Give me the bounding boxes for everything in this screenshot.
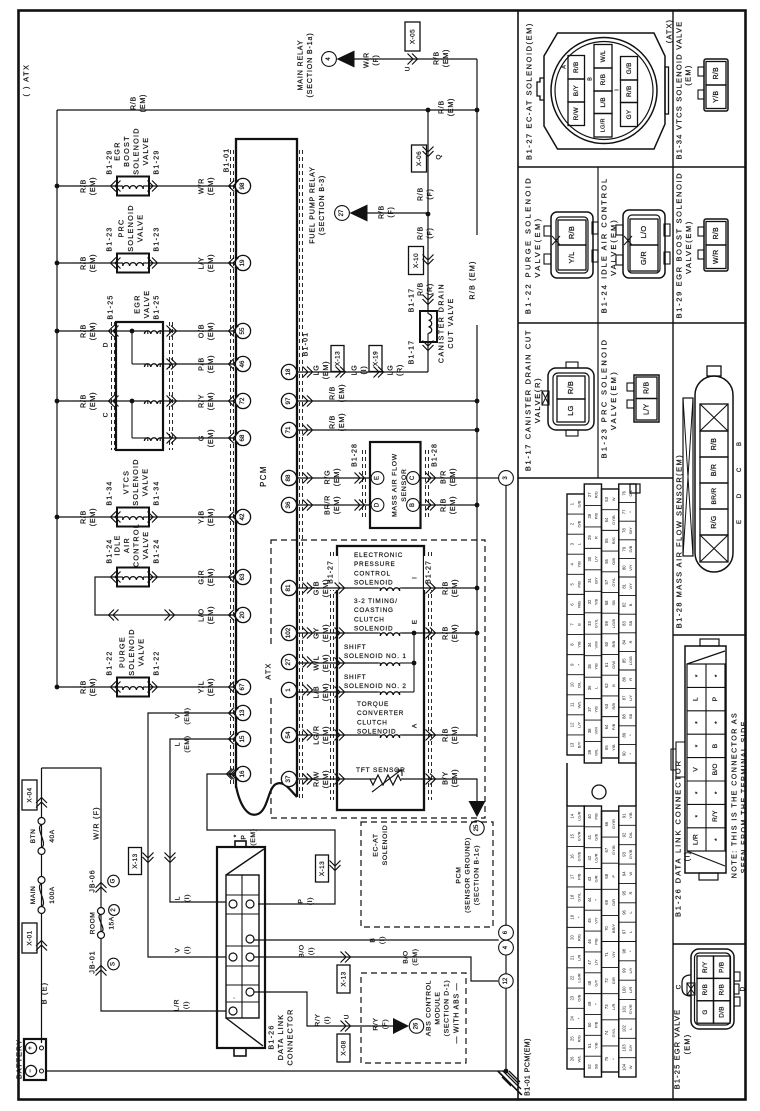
svg-text:35: 35	[587, 663, 592, 668]
EGR valve face right tabs	[734, 972, 740, 981]
svg-text:JB-01: JB-01	[90, 950, 97, 973]
svg-text:B1-25 EGR VALVE: B1-25 EGR VALVE	[673, 1009, 682, 1090]
svg-text:(EM): (EM)	[450, 624, 459, 642]
svg-text:(SECTION B-3): (SECTION B-3)	[319, 175, 326, 235]
svg-text:L/O: L/O	[639, 226, 648, 239]
svg-text:60: 60	[604, 641, 609, 646]
svg-text:GY/R: GY/R	[628, 1004, 633, 1014]
svg-text:PCM: PCM	[455, 866, 462, 883]
svg-text:(EM): (EM)	[321, 579, 330, 597]
svg-text:63: 63	[604, 703, 609, 708]
svg-text:L/R: L/R	[173, 999, 180, 1011]
svg-text:SB: SB	[611, 600, 616, 606]
svg-text:A: A	[562, 65, 568, 69]
svg-text:B1-28: B1-28	[432, 443, 439, 467]
svg-text:15A: 15A	[108, 916, 115, 929]
svg-text:R/B: R/B	[644, 381, 651, 394]
svg-text:R: R	[628, 678, 633, 681]
svg-text:R/G: R/G	[323, 470, 332, 485]
wire EGR valve row to PCM G|(EM)	[163, 437, 236, 439]
svg-text:47: 47	[587, 959, 592, 964]
svg-text:B1-22: B1-22	[107, 650, 114, 675]
svg-text:SOLENOID: SOLENOID	[126, 204, 135, 252]
svg-text:B1-27: B1-27	[426, 560, 433, 584]
svg-text:Y/L: Y/L	[197, 681, 206, 694]
EC-AT connector housing octagon	[544, 33, 665, 149]
ground symbol	[498, 1071, 522, 1095]
svg-text:(EM): (EM)	[450, 579, 459, 597]
EC-AT solenoid unit box	[337, 546, 424, 810]
fuse BTN 40A	[38, 818, 45, 825]
svg-text:A: A	[411, 723, 418, 728]
EGR valve connector dashes	[111, 322, 113, 450]
purge connector tabs	[544, 226, 551, 236]
svg-text:11: 11	[570, 702, 575, 707]
svg-text:1: 1	[285, 688, 292, 692]
svg-text:L/Y: L/Y	[628, 967, 633, 973]
wire pin36 to MAF D BR/R(EM)	[297, 504, 371, 506]
circled 2 at ROOM fuse	[109, 905, 120, 916]
EGR valve internal link C rows	[131, 401, 133, 438]
svg-text:L/Y: L/Y	[576, 722, 581, 728]
svg-text:*: *	[695, 721, 702, 724]
svg-text:Y/B: Y/B	[594, 1042, 599, 1049]
svg-text:71: 71	[604, 952, 609, 957]
svg-text:(EM): (EM)	[337, 384, 346, 402]
svg-text:V/Y: V/Y	[594, 917, 599, 924]
svg-text:NOTE: THIS IS THE CONNECTOR AS: NOTE: THIS IS THE CONNECTOR AS	[732, 712, 739, 878]
svg-text:R/Y: R/Y	[712, 810, 719, 822]
svg-text:D: D	[102, 342, 109, 347]
svg-text:X-04: X-04	[26, 787, 33, 802]
svg-text:*: *	[234, 834, 241, 837]
svg-text:X-10: X-10	[413, 253, 420, 268]
divider S3 columns x598	[597, 323, 599, 478]
svg-text:101: 101	[621, 1005, 626, 1013]
wire R/B bus to B1-34	[57, 516, 117, 518]
svg-text:46: 46	[587, 939, 592, 944]
svg-text:25: 25	[570, 1036, 575, 1041]
svg-text:R/B: R/B	[441, 728, 450, 742]
wire EGR valve row to PCM R/Y|(EM)	[163, 400, 236, 402]
wire MAF C to junction 3 B/R(EM)	[421, 477, 499, 479]
svg-text:(SECTION B-1a): (SECTION B-1a)	[307, 32, 314, 97]
svg-text:IDLE: IDLE	[113, 534, 122, 555]
svg-text:R/B: R/B	[328, 415, 337, 429]
EC-AT connector circle inner	[555, 42, 653, 140]
svg-text:R/B: R/B	[711, 438, 718, 451]
EGR valve coil row y331	[144, 331, 163, 334]
svg-text:(EM): (EM)	[321, 726, 330, 744]
svg-text:P/B: P/B	[594, 813, 599, 820]
svg-text:GY/R: GY/R	[576, 831, 581, 841]
svg-text:B1-34: B1-34	[107, 480, 114, 505]
svg-text:91: 91	[621, 813, 626, 818]
EC-AT pin LG/R col2	[594, 114, 612, 138]
svg-text:49: 49	[587, 1001, 592, 1006]
svg-text:W/R: W/R	[713, 249, 720, 264]
svg-text:94: 94	[621, 871, 626, 876]
svg-text:18: 18	[285, 368, 292, 375]
svg-text:97: 97	[285, 397, 292, 404]
vertical reference wire 3-6-4-12-ground	[505, 486, 507, 926]
svg-text:58: 58	[604, 600, 609, 605]
svg-text:W/L: W/L	[576, 700, 581, 708]
svg-text:SB: SB	[628, 714, 633, 720]
svg-text:O/L: O/L	[628, 831, 633, 838]
svg-text:L/R: L/R	[692, 834, 699, 845]
connector X-05	[405, 22, 420, 51]
svg-text:R/B: R/B	[566, 381, 575, 394]
wire canister valve down	[427, 342, 429, 372]
svg-text:P: P	[240, 834, 247, 839]
svg-text:61: 61	[604, 662, 609, 667]
connector X-13 on P wire	[316, 855, 329, 882]
svg-text:LG/R: LG/R	[576, 973, 581, 982]
svg-text:26: 26	[414, 1022, 420, 1029]
svg-text:77: 77	[621, 509, 626, 514]
svg-text:88: 88	[285, 474, 292, 481]
svg-text:(F): (F)	[373, 54, 380, 65]
svg-text:(F): (F)	[382, 1019, 389, 1029]
svg-text:C: C	[410, 475, 416, 480]
EC-AT pin W/L col2	[594, 45, 612, 69]
connector arrow circle 27 (fuel pump relay)	[335, 206, 350, 221]
B1-22 solenoid valve box	[117, 678, 149, 697]
svg-text:VTCS: VTCS	[122, 470, 131, 494]
PRC connector	[634, 375, 659, 422]
svg-text:EGR: EGR	[133, 294, 142, 313]
svg-text:(EM): (EM)	[450, 769, 459, 787]
svg-text:PCM: PCM	[259, 465, 268, 487]
svg-text:(EM): (EM)	[321, 683, 330, 701]
junction dot fuel pump branch	[426, 212, 431, 217]
svg-text:GY/R: GY/R	[611, 819, 616, 829]
shift1 link to node E	[402, 662, 414, 664]
svg-text:L/Y: L/Y	[594, 959, 599, 965]
svg-text:B: B	[611, 684, 616, 687]
svg-text:B/O: B/O	[712, 763, 719, 775]
svg-text:W: W	[611, 497, 616, 501]
svg-text:R/B: R/B	[439, 100, 446, 114]
purge solenoid connector	[551, 212, 593, 278]
svg-text:(SECTION D-1): (SECTION D-1)	[443, 980, 450, 1037]
svg-text:100A: 100A	[49, 886, 56, 904]
VTCS connector tabs	[698, 67, 704, 76]
svg-text:SEEN FROM THE TERMINAL SIDE.: SEEN FROM THE TERMINAL SIDE.	[741, 717, 748, 874]
svg-text:G/R: G/R	[639, 251, 648, 265]
svg-text:(EM): (EM)	[321, 770, 330, 788]
PCM right pin circles	[281, 364, 296, 379]
wire B(I) DLC to junction 4	[254, 939, 499, 941]
svg-text:82: 82	[621, 602, 626, 607]
svg-text:B1-28: B1-28	[352, 443, 359, 467]
svg-text:VALVE: VALVE	[135, 214, 144, 243]
svg-text:R/B: R/B	[418, 226, 425, 240]
EGR valve coil row y364	[144, 364, 163, 367]
svg-text:B/R: B/R	[711, 464, 718, 477]
svg-text:71: 71	[285, 426, 292, 433]
svg-text:(EM): (EM)	[337, 413, 346, 431]
MAF pin B/R	[700, 457, 728, 483]
svg-text:X-13: X-13	[132, 853, 139, 868]
ABS dashed box	[361, 973, 466, 1063]
svg-text:BATTERY: BATTERY	[15, 1039, 24, 1079]
svg-text:(F): (F)	[427, 188, 434, 199]
svg-text:14: 14	[570, 813, 575, 818]
svg-text:L: L	[692, 697, 699, 701]
EC-AT sensor ground dashed box	[361, 822, 493, 927]
svg-text:G/B: G/B	[628, 545, 633, 552]
EC-AT pin G/B col3	[621, 57, 638, 81]
svg-text:E: E	[737, 520, 743, 524]
MAF pin B	[407, 499, 420, 512]
svg-text:27: 27	[587, 492, 592, 497]
svg-text:44: 44	[587, 897, 592, 902]
svg-text:P/B: P/B	[594, 1021, 599, 1028]
svg-text:92: 92	[621, 832, 626, 837]
svg-text:Y/B: Y/B	[197, 510, 206, 524]
wire pin71 R/B(EM) to bus	[297, 429, 477, 431]
PCM right pin chevrons	[303, 367, 313, 378]
junction circle 4	[499, 940, 514, 955]
svg-text:R: R	[594, 536, 599, 539]
svg-text:Y/B: Y/B	[611, 744, 616, 751]
svg-text:75: 75	[604, 1056, 609, 1061]
svg-text:P/B: P/B	[197, 357, 206, 371]
svg-text:56: 56	[604, 558, 609, 563]
B1-23 solenoid valve box	[117, 254, 149, 273]
svg-text:R/B: R/B	[79, 256, 88, 270]
svg-text:VALVE: VALVE	[140, 468, 149, 497]
svg-text:O/B: O/B	[576, 994, 581, 1001]
svg-text:U: U	[404, 66, 411, 71]
svg-text:38: 38	[587, 728, 592, 733]
inline label R/B(EM) on bus x477	[470, 235, 484, 325]
svg-text:42: 42	[587, 855, 592, 860]
svg-text:GY/L: GY/L	[594, 618, 599, 628]
battery box	[24, 1039, 46, 1080]
battery - terminal	[25, 1065, 36, 1076]
svg-text:87: 87	[621, 695, 626, 700]
svg-text:95: 95	[621, 890, 626, 895]
EC-AT connector right tab	[665, 67, 669, 114]
divider S2 columns x598	[597, 167, 599, 323]
svg-text:(SENSOR GROUND): (SENSOR GROUND)	[464, 837, 471, 913]
svg-text:L/O: L/O	[197, 608, 206, 622]
svg-text:*: *	[695, 791, 702, 794]
svg-text:45: 45	[587, 918, 592, 923]
svg-text:(I): (I)	[308, 947, 315, 955]
PCM connector gap rails	[566, 763, 568, 806]
svg-text:B/Y: B/Y	[441, 771, 450, 785]
DLC inner grid	[226, 875, 259, 1018]
connector X-06	[412, 145, 427, 172]
svg-text:90: 90	[621, 751, 626, 756]
svg-text:−: −	[28, 1069, 34, 1073]
DLC top tab	[235, 841, 246, 847]
svg-text:R/B: R/B	[131, 96, 138, 110]
wire LG to PCM pin 18	[288, 371, 428, 373]
svg-text:L/Y: L/Y	[644, 404, 651, 415]
svg-text:G/Y: G/Y	[594, 979, 599, 986]
svg-text:P/B: P/B	[719, 962, 726, 973]
EC-AT pin B/Y col1	[568, 79, 585, 102]
EC-AT pin R/W col1	[568, 102, 585, 126]
wire P(EM) pin16 loop	[207, 774, 335, 904]
svg-text:85: 85	[621, 658, 626, 663]
svg-text:(EM): (EM)	[206, 355, 215, 373]
svg-text:54: 54	[285, 731, 292, 738]
svg-text:CONTROL: CONTROL	[354, 570, 391, 577]
svg-text:67: 67	[239, 683, 246, 690]
svg-text:(EM): (EM)	[450, 726, 459, 744]
TFT exit wire B/Y(EM)	[401, 779, 477, 801]
MAF pin BR/R	[700, 483, 728, 509]
EPC exit wire R/B(EM)	[402, 587, 477, 589]
svg-text:R/B: R/B	[418, 187, 425, 201]
svg-text:R/B: R/B	[434, 51, 441, 65]
svg-text:(EM): (EM)	[448, 98, 455, 116]
svg-text:SHIFT: SHIFT	[344, 644, 366, 651]
svg-text:L/B: L/B	[600, 97, 607, 108]
svg-text:SOLENOID: SOLENOID	[354, 580, 393, 587]
svg-text:D/B: D/B	[719, 1006, 726, 1018]
wire W/R(F) from main relay to X-05	[355, 58, 478, 60]
svg-text:P/B: P/B	[594, 513, 599, 520]
MAF pin X top	[700, 404, 728, 431]
svg-text:12: 12	[570, 722, 575, 727]
svg-text:R/G: R/G	[594, 491, 599, 498]
PCM connector table lower half (pins 14-26/40-52/66-75/91-104)	[567, 806, 584, 1069]
svg-text:GY: GY	[312, 627, 321, 639]
svg-text:53: 53	[604, 496, 609, 501]
svg-text:50: 50	[587, 1022, 592, 1027]
svg-text:.: .	[230, 997, 237, 999]
EC-AT pin R/B col3	[621, 80, 638, 103]
svg-text:62: 62	[604, 683, 609, 688]
svg-text:V/M: V/M	[594, 641, 599, 648]
svg-text:G/R: G/R	[594, 875, 599, 882]
EC-AT connector circle outer	[551, 38, 657, 144]
svg-text:(EM): (EM)	[321, 361, 330, 379]
svg-text:68: 68	[239, 434, 246, 441]
svg-text:R/G: R/G	[611, 537, 616, 544]
svg-text:R/B: R/B	[379, 205, 386, 219]
svg-text:LG/R: LG/R	[312, 725, 321, 745]
svg-text:B/Y: B/Y	[594, 577, 599, 584]
svg-text:23: 23	[570, 995, 575, 1000]
svg-text:(EM): (EM)	[184, 707, 191, 724]
EGR valve coil row y401	[144, 401, 163, 404]
svg-text:40A: 40A	[49, 829, 56, 842]
svg-text:G/R: G/R	[611, 899, 616, 906]
svg-text:19: 19	[570, 914, 575, 919]
connector X-01	[22, 923, 37, 953]
svg-text:VALVE: VALVE	[136, 638, 145, 667]
svg-text:(EM): (EM)	[140, 94, 147, 112]
junction dots on left bus	[55, 184, 60, 189]
svg-text:SHIFT: SHIFT	[344, 674, 366, 681]
svg-text:B/Y: B/Y	[628, 527, 633, 534]
svg-text:U: U	[343, 1014, 350, 1019]
svg-text:(EM): (EM)	[184, 735, 191, 752]
DLC bottom tab	[234, 1048, 246, 1056]
svg-text:BR/R: BR/R	[711, 488, 718, 505]
connector X-13 for V/L wires	[129, 848, 142, 875]
svg-text:B1-17: B1-17	[409, 288, 416, 313]
wire L/Y|(EM) to PCM	[149, 262, 236, 264]
battery terminal posts	[40, 1046, 44, 1050]
svg-text:86: 86	[621, 676, 626, 681]
svg-text:(ATX): (ATX)	[665, 19, 674, 43]
svg-text:30: 30	[587, 556, 592, 561]
svg-text:G/B: G/B	[576, 500, 581, 507]
svg-text:98: 98	[239, 182, 246, 189]
junction circle 26	[409, 1019, 423, 1033]
svg-text:L/R: L/R	[628, 987, 633, 993]
svg-text:(EM): (EM)	[448, 496, 457, 514]
svg-text:(EM): (EM)	[206, 678, 215, 696]
svg-text:SOLENOID: SOLENOID	[131, 458, 140, 506]
svg-text:52: 52	[587, 1064, 592, 1069]
svg-text:GY/B: GY/B	[576, 851, 581, 861]
svg-text:D: D	[739, 986, 746, 991]
svg-text:W: W	[628, 1065, 633, 1069]
MAF pin R/G	[700, 509, 728, 535]
svg-text:3-2 TIMING/: 3-2 TIMING/	[354, 598, 398, 605]
svg-text:89: 89	[621, 732, 626, 737]
svg-text:X-01: X-01	[26, 930, 33, 945]
svg-text:DATA LINK: DATA LINK	[276, 1014, 285, 1060]
svg-text:43: 43	[587, 876, 592, 881]
svg-text:VALVE(EM): VALVE(EM)	[533, 216, 542, 277]
svg-text:D: D	[375, 502, 381, 507]
svg-text:(EM): (EM)	[88, 254, 97, 272]
svg-text:40: 40	[587, 813, 592, 818]
svg-text:B1-01: B1-01	[303, 332, 310, 357]
svg-text:R/B: R/B	[328, 386, 337, 400]
svg-text:37: 37	[285, 775, 292, 782]
svg-text:103: 103	[621, 1044, 626, 1052]
wire MAF B to bus R/B(EM)	[421, 504, 478, 506]
wire R/B(EM) left bus vertical	[56, 110, 58, 687]
svg-text:B: B	[712, 743, 719, 748]
svg-text:(EM): (EM)	[443, 49, 450, 67]
svg-text:Y/B: Y/B	[594, 663, 599, 670]
svg-text:W/R (F): W/R (F)	[92, 806, 101, 840]
EGR valve coil row y438	[144, 438, 163, 441]
svg-text:GY/B: GY/B	[611, 515, 616, 525]
connector dashes B1-27 right	[428, 552, 430, 800]
svg-text:G: G	[197, 435, 206, 441]
JB-06 junction	[96, 883, 107, 893]
svg-text:PURGE: PURGE	[118, 636, 127, 668]
svg-text:LG/B: LG/B	[628, 656, 633, 665]
svg-text:39: 39	[587, 749, 592, 754]
MAF pin R/B	[700, 431, 728, 457]
DLC face cell grid	[687, 664, 725, 851]
svg-text:(EM): (EM)	[321, 624, 330, 642]
svg-text:L/Y: L/Y	[628, 695, 633, 701]
connector arrow circle 4 (main relay)	[322, 52, 337, 67]
shift1 wire W/L(EM) pin27	[297, 662, 378, 664]
svg-text:R/B: R/B	[719, 984, 726, 996]
svg-text:W/L: W/L	[576, 1055, 581, 1063]
svg-text:69: 69	[604, 899, 609, 904]
svg-text:R/B: R/B	[626, 85, 633, 97]
EPC wire G/B(EM) pin81	[297, 587, 378, 589]
